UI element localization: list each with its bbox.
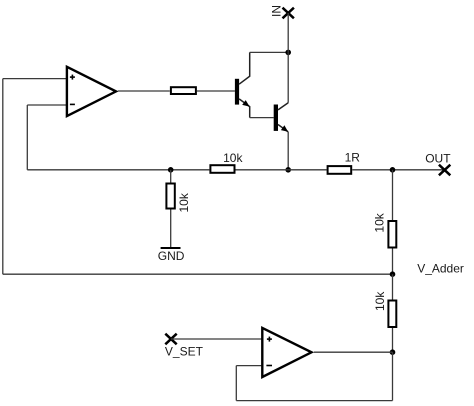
wire top collector row <box>250 51 289 53</box>
transistor Q2 <box>274 103 289 132</box>
wire minus feedback vertical <box>26 105 28 170</box>
wire op1 plus input from left edge <box>3 78 67 80</box>
svg-text:IN: IN <box>270 5 284 17</box>
op-amp U1 <box>67 67 116 116</box>
resistor base (no label) <box>171 87 196 94</box>
port OUT <box>425 151 451 175</box>
wire resistor to Q1 base <box>197 90 235 92</box>
wire resistor to V_Adder row <box>392 249 394 275</box>
svg-text:GND: GND <box>158 249 185 263</box>
node junction op2 output <box>390 349 396 355</box>
wire Q1 emitter to Q2 base <box>250 117 274 119</box>
svg-text:10k: 10k <box>177 192 191 212</box>
wire IN port down <box>287 13 289 52</box>
op-amp U2 <box>262 328 311 377</box>
svg-text:10k: 10k <box>373 212 387 232</box>
ground <box>158 248 185 263</box>
wire main row right to OUT <box>352 169 444 171</box>
node junction V_Adder <box>390 271 396 277</box>
wire op2 minus input <box>236 365 262 367</box>
node junction left on main row <box>168 167 174 173</box>
resistor 1R <box>328 151 361 174</box>
wire Q2 emitter down <box>287 132 289 170</box>
resistor 10k horizontal <box>210 151 243 173</box>
svg-text:10k: 10k <box>223 151 243 165</box>
wire main row left <box>27 169 209 171</box>
node junction emitter on main row <box>285 167 291 173</box>
wire resistor to ground <box>170 210 172 248</box>
wire op2 feedback right vertical <box>392 352 394 400</box>
svg-text:1R: 1R <box>345 151 361 165</box>
resistor 10k vertical left <box>166 184 191 213</box>
wire op2 output <box>314 351 393 353</box>
wire V_SET to op2 plus input <box>171 338 262 340</box>
transistor Q1 <box>235 52 250 117</box>
wire right column top <box>392 170 394 220</box>
svg-text:OUT: OUT <box>425 151 451 165</box>
wire left feedback vertical <box>2 79 4 275</box>
port V_SET <box>165 334 204 359</box>
wire op2 feedback left vertical <box>235 366 237 401</box>
wire main row middle <box>236 169 327 171</box>
svg-text:V_SET: V_SET <box>165 345 204 359</box>
wire V_Adder row <box>3 273 393 275</box>
wire op1 minus input <box>27 104 66 106</box>
node junction IN <box>285 50 291 56</box>
resistor 10k vertical right bottom <box>373 291 396 327</box>
wire junction to resistor top <box>170 170 172 183</box>
svg-text:10k: 10k <box>373 291 387 311</box>
resistor 10k vertical right top <box>373 212 397 247</box>
wire V_Adder to lower resistor <box>392 274 394 299</box>
port IN <box>270 5 294 18</box>
svg-text:V_Adder: V_Adder <box>417 261 464 275</box>
node junction right on main row <box>390 167 396 173</box>
wire resistor to op2 output row <box>392 328 394 352</box>
wire op2 feedback bottom row <box>236 400 392 402</box>
wire Q2 collector drop <box>287 52 289 102</box>
wire op1 output <box>118 90 170 92</box>
